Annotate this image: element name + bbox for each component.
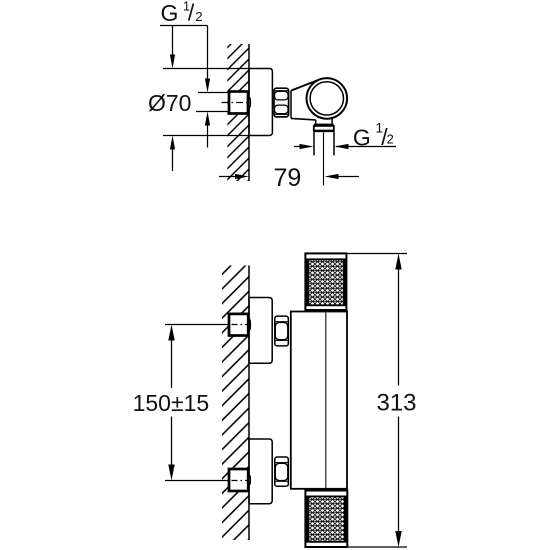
- svg-text:2: 2: [387, 132, 394, 147]
- svg-text:2: 2: [195, 9, 202, 24]
- svg-text:313: 313: [376, 390, 416, 417]
- svg-text:150±15: 150±15: [133, 390, 210, 416]
- svg-text:79: 79: [274, 164, 302, 192]
- svg-text:G: G: [353, 124, 371, 150]
- svg-text:/: /: [188, 0, 195, 25]
- svg-text:G: G: [161, 0, 179, 26]
- svg-text:Ø70: Ø70: [148, 90, 191, 116]
